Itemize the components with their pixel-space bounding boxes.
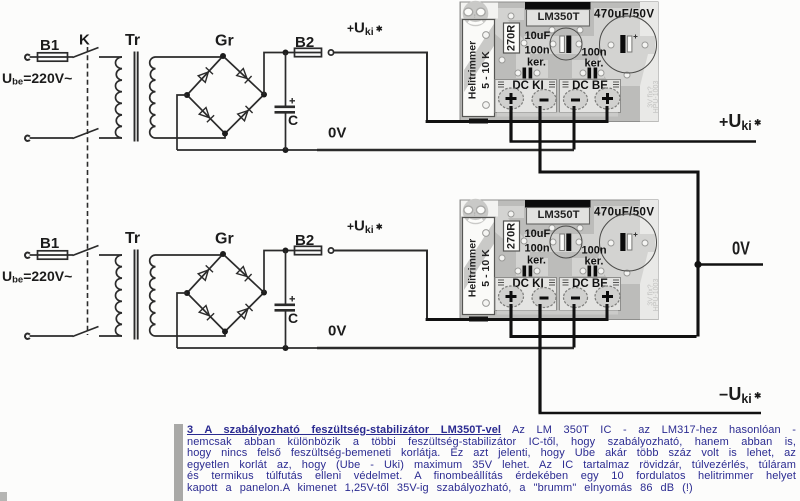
descriptive text block (174, 424, 183, 501)
supply unit 1 (B1,K,Tr,Gr,B2,C schematic) (2, 20, 574, 154)
bottom-left scan artifact (0, 492, 7, 501)
svg-text:+Uki ✱: +Uki ✱ (719, 111, 762, 133)
wire: PCB1 DC KI + to +Uki rail (509, 106, 512, 142)
wire: mid 0V bus to 0V output (698, 263, 763, 265)
wire: PCB2 DC KI + to mid 0V bus (511, 304, 697, 337)
supply unit 2 schematic (2, 218, 574, 352)
module 2 input wires (426, 304, 607, 348)
stabilizer module PCB 2 (460, 199, 660, 322)
stabilizer module PCB 1 (460, 1, 660, 124)
svg-text:0V: 0V (732, 239, 750, 259)
dashed gang line of switch K (87, 47, 89, 335)
module 1 input wires (B2 to DC BE, 0V to DC BE-) (426, 106, 607, 150)
svg-text:K: K (79, 32, 90, 49)
wire: PCB1 DC KI - down to mid 0V bus (540, 106, 698, 337)
svg-text:−Uki ✱: −Uki ✱ (719, 384, 762, 406)
junction dot mid 0V (694, 261, 701, 268)
wire: PCB2 DC KI - to -Uki rail (538, 304, 541, 413)
